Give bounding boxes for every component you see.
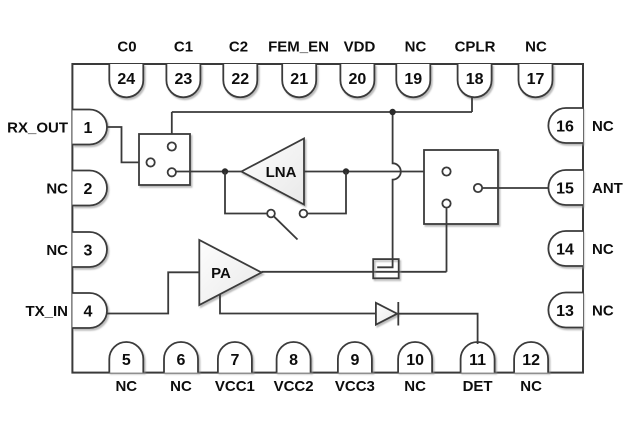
diode D1 cathode bar (397, 302, 399, 326)
wire SW2 bottom to coupler (446, 208, 448, 272)
svg-text:VCC3: VCC3 (335, 378, 375, 395)
svg-text:5: 5 (122, 352, 131, 369)
pin 13 (548, 293, 583, 328)
pin 24 (109, 64, 143, 97)
pin 2 (72, 171, 107, 206)
svg-text:ANT: ANT (592, 180, 623, 197)
switch SW1 top contact (168, 142, 176, 150)
wire diode to DET pin11 (398, 314, 477, 344)
svg-text:17: 17 (527, 71, 545, 88)
svg-text:NC: NC (525, 38, 547, 55)
switch SW2 top contact (442, 167, 450, 175)
switch SW1 box (139, 134, 190, 185)
coupler coupled-line (377, 259, 392, 267)
node CPLR junction (389, 109, 395, 115)
wire SW2 to ANT pin15 (483, 187, 549, 189)
svg-text:9: 9 (350, 352, 359, 369)
svg-text:NC: NC (520, 378, 542, 395)
svg-text:NC: NC (404, 378, 426, 395)
pin 3 (72, 232, 107, 267)
svg-text:14: 14 (556, 241, 574, 258)
wire bypass left leg (225, 172, 267, 214)
pin 16 (548, 108, 583, 143)
pin 7 (218, 342, 252, 373)
svg-text:3: 3 (84, 242, 93, 259)
op-amp PA (199, 240, 261, 305)
svg-text:DET: DET (463, 378, 493, 395)
pin 17 (519, 64, 553, 97)
pin 15 (548, 170, 583, 205)
svg-text:23: 23 (175, 71, 193, 88)
wire CPLR pin18 stub (471, 98, 473, 113)
svg-text:NC: NC (46, 242, 68, 259)
svg-text:11: 11 (469, 352, 486, 369)
wire coupler feed vertical with hop over LNA line (393, 112, 401, 259)
svg-text:6: 6 (177, 352, 186, 369)
svg-text:CPLR: CPLR (455, 38, 496, 55)
switch bypass arm (274, 216, 298, 239)
svg-text:19: 19 (404, 71, 422, 88)
pin 5 (109, 342, 143, 373)
switch bypass right contact (300, 210, 308, 218)
svg-text:10: 10 (406, 352, 424, 369)
svg-text:7: 7 (230, 352, 239, 369)
pin 18 (458, 64, 492, 97)
svg-text:NC: NC (170, 378, 192, 395)
svg-text:2: 2 (84, 181, 93, 198)
switch SW2 box (424, 150, 498, 224)
svg-text:16: 16 (556, 118, 574, 135)
wire LNA output run (304, 171, 442, 173)
svg-text:24: 24 (117, 71, 135, 88)
svg-text:1: 1 (84, 120, 93, 137)
svg-text:NC: NC (115, 378, 137, 395)
pin 1 (72, 110, 107, 145)
svg-text:12: 12 (522, 352, 540, 369)
switch SW1 left contact (146, 158, 154, 166)
pin 22 (223, 64, 257, 97)
pin 12 (514, 342, 548, 373)
svg-text:VDD: VDD (344, 38, 376, 55)
pin 23 (166, 64, 200, 97)
svg-text:C0: C0 (117, 38, 136, 55)
node LNA input junction (222, 168, 228, 174)
svg-text:20: 20 (349, 71, 367, 88)
svg-text:TX_IN: TX_IN (25, 303, 68, 320)
node LNA output junction (343, 168, 349, 174)
pin 11 (461, 342, 495, 373)
pin 21 (282, 64, 316, 97)
op-amp LNA (241, 139, 304, 205)
pin 14 (548, 231, 583, 266)
pin 10 (398, 342, 432, 373)
pin 19 (396, 64, 430, 97)
switch SW2 antenna contact (474, 184, 482, 192)
pin 20 (340, 64, 374, 97)
wire PA tap to detector diode (220, 295, 376, 314)
svg-text:21: 21 (290, 71, 308, 88)
svg-text:8: 8 (289, 352, 298, 369)
svg-text:NC: NC (46, 180, 68, 197)
package outline (72, 64, 583, 373)
svg-text:NC: NC (592, 302, 614, 319)
pin 6 (164, 342, 198, 373)
pin 9 (338, 342, 372, 373)
wire PA output main line through coupler (262, 271, 447, 273)
svg-text:4: 4 (84, 303, 93, 320)
pin 8 (277, 342, 311, 373)
coupler box (373, 259, 399, 278)
wire SW1 to LNA input (177, 171, 242, 173)
svg-text:C2: C2 (229, 38, 248, 55)
switch bypass left contact (267, 210, 275, 218)
svg-text:VCC2: VCC2 (274, 378, 314, 395)
switch SW1 bottom contact (168, 168, 176, 176)
svg-text:13: 13 (556, 303, 574, 320)
svg-text:NC: NC (592, 118, 614, 135)
switch SW2 bottom contact (442, 199, 450, 207)
svg-text:VCC1: VCC1 (215, 378, 255, 395)
wire RX_OUT pin1 to switch SW1 (107, 127, 146, 162)
svg-text:15: 15 (556, 180, 574, 197)
svg-text:NC: NC (405, 38, 427, 55)
wire SW1 top stub (171, 112, 173, 142)
wire TX_IN pin4 to PA input (107, 272, 199, 313)
svg-text:FEM_EN: FEM_EN (268, 38, 329, 55)
wire CPLR horizontal run (172, 111, 472, 113)
svg-text:18: 18 (466, 71, 484, 88)
svg-text:PA: PA (211, 265, 231, 282)
svg-text:C1: C1 (174, 38, 193, 55)
pin 4 (72, 293, 107, 328)
svg-text:22: 22 (231, 71, 249, 88)
svg-text:RX_OUT: RX_OUT (7, 119, 68, 136)
svg-text:NC: NC (592, 241, 614, 258)
wire bypass right leg (307, 172, 346, 214)
diode D1 (376, 303, 397, 325)
svg-text:LNA: LNA (266, 164, 297, 181)
